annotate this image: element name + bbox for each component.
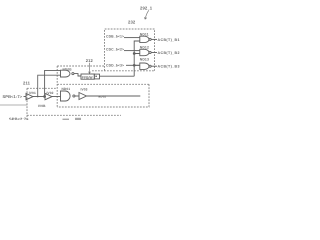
wire ND13 output [151,65,157,67]
svg-text:ACB(T)_B2: ACB(T)_B2 [158,51,180,55]
nand gate ND0B (middle row) [61,70,71,77]
wire ND0B upper input [45,70,61,96]
wire ND0B lower input from tap [38,75,61,96]
dashed box 292_1 bottom edge (overshoots left) [92,70,155,72]
dashed box 292_1 (right, contains ND gates) [105,29,155,71]
node junction dot at ND13 input [133,64,135,66]
svg-text:IV03: IV03 [81,88,88,92]
svg-text:ACB(T)_B1: ACB(T)_B1 [158,38,180,42]
dashed box left edge [56,66,58,107]
svg-text:ND0B: ND0B [63,68,73,72]
svg-text:CDC_b<2>: CDC_b<2> [106,48,124,52]
wire CDC to ND12 [124,50,140,52]
dashed box outer unit (left edge) [26,88,28,120]
wire next unit input [0,104,27,106]
svg-text:232: 232 [128,19,136,24]
svg-text:SPB<1:7>: SPB<1:7> [3,94,23,99]
dashed box middle top edge [57,65,104,67]
wire ND11 output [151,38,157,40]
inverter IV03 [79,93,87,100]
latch cell inner mark [95,76,97,77]
wire IV01 to IV02 with tap [33,96,45,98]
wire ND12 output [151,52,157,54]
svg-text:ND01: ND01 [62,87,71,91]
wire ND0B output to FF [74,74,81,76]
svg-text:SPB<2:7>: SPB<2:7> [9,117,29,120]
dashed line next unit boundary [27,114,121,116]
svg-text:IV01: IV01 [29,91,36,95]
svg-text:292_1: 292_1 [140,6,153,11]
svg-text:IV0B: IV0B [38,104,46,108]
dashed box outer unit (left top edge) [27,87,57,89]
wire input [24,96,27,98]
wire shared vertical to gate second inputs [134,41,140,76]
svg-text:ACB(T)_B3: ACB(T)_B3 [158,65,180,69]
nand gate ND13 [140,63,149,69]
svg-text:FFB/W: FFB/W [82,75,93,79]
wire long output inside bottom box [87,95,141,97]
inverter IV01 [26,93,33,99]
svg-text:CDB_b<1>: CDB_b<1> [106,35,124,39]
wire FF output to vertical [100,75,135,77]
inverter IV02 [45,93,52,99]
node junction dot at ND12 input [133,53,135,55]
svg-text:212: 212 [86,58,94,63]
wire IV02 to ND01 [52,96,61,98]
svg-text:CDD_b<3>: CDD_b<3> [106,63,124,67]
leader arrow from 292_1 [144,10,148,19]
wire CDD to ND13 [126,64,140,66]
dashed box bottom row (top edge) [57,83,149,85]
svg-text:211: 211 [23,81,31,86]
svg-text:ND02: ND02 [98,95,106,99]
next unit label stubs (clipped) [63,119,70,120]
node junction dot tap 2 [37,96,39,98]
nand gate ND12 [140,49,149,55]
dashed box bottom row (right+bottom edges) [57,84,149,107]
node junction dot tap [44,96,46,98]
leader arrow from 212 to FF box [89,63,91,74]
wire ND01 output [75,95,79,97]
nand gate ND01 (bottom row) [61,91,71,101]
nand gate ND11 [140,36,149,42]
wire CDB to ND11 [124,37,140,39]
flip-flop box FFB/W [81,74,94,79]
latch cell small box [94,74,99,79]
svg-text:ND13: ND13 [140,57,149,61]
